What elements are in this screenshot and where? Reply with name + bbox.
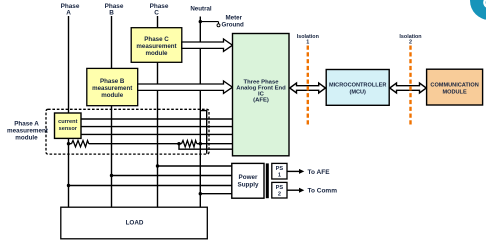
svg-text:To AFE: To AFE	[308, 169, 331, 176]
wire power feed from phase C	[158, 165, 232, 167]
svg-text:Phase A: Phase A	[14, 121, 39, 128]
resistor R2 (sense shunt)	[182, 141, 197, 147]
arrow PS2 to Comm	[287, 189, 300, 191]
block LOAD	[61, 207, 208, 239]
node Phase B label	[105, 3, 124, 17]
svg-text:C: C	[154, 10, 159, 17]
wire vertical return x=207	[201, 111, 207, 154]
wire between resistors	[89, 143, 182, 145]
wire phase B vertical	[111, 16, 113, 208]
block PS 2	[272, 182, 287, 198]
svg-text:Supply: Supply	[238, 181, 259, 188]
svg-text:(AFE): (AFE)	[253, 98, 269, 104]
block PS 1	[272, 163, 287, 179]
logo badge top right	[470, 0, 486, 20]
wire resistor to AFE	[197, 143, 233, 145]
wire meter ground tap	[200, 21, 218, 23]
svg-text:Power: Power	[239, 174, 258, 181]
svg-text:measurement: measurement	[136, 43, 176, 50]
wire phase C vertical	[157, 16, 159, 208]
block Phase C measurement module	[131, 28, 182, 63]
wire neutral vertical	[199, 17, 201, 208]
svg-text:module: module	[15, 135, 38, 142]
node dot R2 left	[177, 142, 180, 145]
block Three Phase Analog Front End (AFE)	[233, 34, 290, 156]
svg-text:PS: PS	[276, 185, 284, 191]
svg-text:MODULE: MODULE	[442, 90, 467, 96]
svg-text:current: current	[58, 119, 77, 125]
svg-text:To Comm: To Comm	[308, 188, 338, 195]
block Power Supply	[232, 163, 264, 198]
node Meter Ground label	[222, 15, 245, 29]
svg-text:module: module	[101, 92, 124, 99]
isolation 2 label	[399, 34, 421, 46]
svg-text:(MCU): (MCU)	[349, 90, 366, 96]
power supply isolation bar	[266, 163, 269, 198]
svg-text:measurement: measurement	[92, 85, 132, 92]
wire power feed from neutral	[200, 193, 232, 195]
wire power feed from phase B	[112, 175, 232, 177]
node dot R2 right on neutral	[199, 142, 202, 145]
block COMMUNICATION MODULE	[427, 69, 483, 105]
isolation 2 dashed line	[409, 46, 411, 127]
svg-text:measurement: measurement	[7, 128, 49, 135]
svg-text:B: B	[109, 10, 114, 17]
wire power feed from phase A	[69, 185, 232, 187]
svg-text:Phase: Phase	[150, 3, 169, 10]
svg-text:Ground: Ground	[222, 21, 245, 28]
svg-text:Phase C: Phase C	[144, 36, 169, 43]
wire shunt line with resistors	[69, 143, 72, 145]
wire sense tap loop	[179, 144, 233, 150]
svg-text:MICROCONTROLLER: MICROCONTROLLER	[329, 83, 387, 89]
block MICROCONTROLLER (MCU)	[326, 70, 389, 106]
block arrow Phase C module to AFE	[182, 39, 233, 51]
isolation 1 label	[297, 34, 319, 46]
svg-text:A: A	[66, 10, 71, 17]
wire phase A vertical	[68, 16, 70, 208]
svg-text:1: 1	[306, 40, 309, 46]
node dot feed B	[110, 174, 113, 177]
svg-text:LOAD: LOAD	[126, 220, 144, 227]
node junction dot on neutral	[199, 20, 202, 23]
svg-text:Neutral: Neutral	[190, 6, 212, 13]
wire sensor output 1	[80, 118, 233, 120]
node dot A-tap	[67, 142, 70, 145]
wire sensor output 3	[80, 133, 233, 135]
dashed box Phase A measurement module	[46, 109, 209, 154]
double arrow AFE to MCU	[290, 83, 326, 93]
isolation 1 dashed line	[307, 46, 309, 127]
svg-text:sensor: sensor	[59, 126, 78, 132]
current sensor box	[55, 113, 82, 138]
label Phase A measurement module	[7, 121, 49, 142]
svg-text:Phase B: Phase B	[100, 78, 125, 85]
node dot feed N	[199, 192, 202, 195]
double arrow MCU to COMM	[390, 83, 427, 93]
node dot feed C	[156, 164, 159, 167]
svg-text:module: module	[145, 50, 168, 57]
svg-text:2: 2	[409, 40, 412, 46]
svg-text:2: 2	[278, 192, 281, 198]
node dot feed A	[67, 184, 70, 187]
resistor R1 (phase A shunt)	[72, 141, 89, 147]
node Phase A label	[61, 3, 80, 17]
svg-text:1: 1	[278, 173, 281, 179]
wire sensor output 2	[80, 126, 233, 128]
block Phase B measurement module	[87, 68, 138, 105]
block arrow Phase B module to AFE	[138, 81, 233, 93]
ground terminal circle	[217, 24, 220, 27]
svg-text:Phase: Phase	[105, 3, 124, 10]
node Phase C label	[150, 3, 169, 17]
arrow PS1 to AFE	[287, 170, 300, 172]
svg-text:COMMUNICATION: COMMUNICATION	[430, 83, 478, 89]
svg-text:PS: PS	[276, 166, 284, 172]
